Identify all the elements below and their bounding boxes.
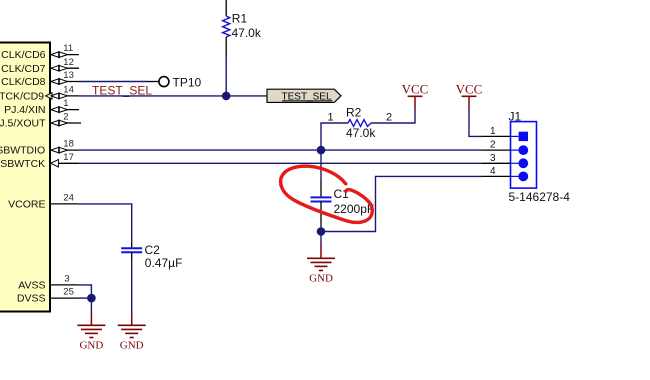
svg-text:47.0k: 47.0k xyxy=(232,26,262,40)
IC U1 body (partial, clipped at left edge) xyxy=(0,43,50,312)
wire VCC to J1 pin1 xyxy=(469,109,482,136)
wire R2 pin1 to node xyxy=(321,123,342,150)
wire pin14 to net label xyxy=(79,95,267,97)
svg-text:2200pF: 2200pF xyxy=(334,202,375,216)
junction node TEST_SEL / R1 xyxy=(222,92,231,101)
pin 13 CLK/CD8 xyxy=(1,70,79,88)
wire AVSS to DVSS node xyxy=(77,285,91,298)
svg-text:R2: R2 xyxy=(346,105,362,119)
wire C1 bottom to junction xyxy=(320,226,322,232)
svg-text:SBWTCK: SBWTCK xyxy=(0,158,45,170)
wire junction to J1 pin4 xyxy=(321,176,482,231)
wire pin13 to TP10 xyxy=(79,81,147,83)
svg-text:CLK/CD7: CLK/CD7 xyxy=(1,63,46,75)
wire node to GND xyxy=(90,298,92,313)
junction node C1 / GND / J1 pin4 xyxy=(317,227,326,236)
svg-text:11: 11 xyxy=(63,43,73,54)
svg-text:3: 3 xyxy=(64,274,69,285)
svg-text:2: 2 xyxy=(386,111,392,123)
svg-text:14: 14 xyxy=(63,85,74,96)
svg-text:R1: R1 xyxy=(232,11,248,25)
resistor R2 xyxy=(328,105,393,140)
pin 1 PJ.4/XIN xyxy=(4,98,79,116)
connector J1 xyxy=(482,109,570,203)
svg-text:17: 17 xyxy=(63,152,74,163)
svg-text:1: 1 xyxy=(63,98,68,109)
svg-text:25: 25 xyxy=(63,287,74,298)
wire R1 to junction xyxy=(225,57,227,96)
wire R2 pin2 to VCC xyxy=(377,109,415,123)
capacitor C2 xyxy=(121,241,182,270)
svg-text:PJ.4/XIN: PJ.4/XIN xyxy=(4,104,45,116)
svg-text:VCC: VCC xyxy=(402,82,429,97)
red annotation circle around C1 xyxy=(281,166,373,222)
J1 pin 1 (square) xyxy=(519,132,528,141)
svg-text:GND: GND xyxy=(120,339,144,351)
svg-text:GND: GND xyxy=(309,272,333,284)
svg-text:PJ.5/XOUT: PJ.5/XOUT xyxy=(0,118,46,130)
junction node AVSS/DVSS xyxy=(87,294,96,303)
capacitor C1 xyxy=(311,150,375,226)
J1 pin 2 xyxy=(518,145,528,155)
svg-text:AVSS: AVSS xyxy=(18,280,45,292)
ground GND (under C2) xyxy=(118,313,146,352)
svg-text:2: 2 xyxy=(63,112,68,123)
svg-text:13: 13 xyxy=(63,70,74,81)
ground GND (under C1) xyxy=(307,232,335,285)
pin 2 PJ.5/XOUT xyxy=(0,112,81,130)
wire SBWTDIO to J1 pin2 xyxy=(79,149,482,151)
svg-text:CLK/CD6: CLK/CD6 xyxy=(1,49,46,61)
svg-text:DVSS: DVSS xyxy=(17,293,46,305)
pin 24 VCORE xyxy=(8,193,77,211)
svg-text:VCC: VCC xyxy=(456,82,483,97)
svg-text:24: 24 xyxy=(63,193,74,204)
svg-text:18: 18 xyxy=(63,139,74,150)
resistor R1 xyxy=(223,0,262,57)
test point TP10 xyxy=(159,75,202,89)
net label TEST_SEL flag xyxy=(267,89,341,102)
svg-text:1: 1 xyxy=(490,126,496,137)
pin 3 AVSS xyxy=(18,274,77,292)
wire VCORE to C2 xyxy=(77,204,132,242)
svg-text:CLK/CD8: CLK/CD8 xyxy=(1,76,46,88)
svg-text:SBWTDIO: SBWTDIO xyxy=(0,145,45,157)
wire SBWTCK to J1 pin3 xyxy=(79,162,482,164)
svg-text:0.47µF: 0.47µF xyxy=(145,256,183,270)
power port VCC (left, for R2) xyxy=(402,82,429,109)
svg-text:GND: GND xyxy=(79,339,103,351)
pin 18 SBWTDIO xyxy=(0,139,79,157)
svg-text:TP10: TP10 xyxy=(173,75,202,89)
svg-text:1: 1 xyxy=(328,111,334,123)
J1 pin 4 xyxy=(518,172,528,182)
svg-text:5-146278-4: 5-146278-4 xyxy=(509,190,571,204)
wire DVSS to node xyxy=(77,297,91,299)
pin 14 TCK/CD9 xyxy=(0,85,79,103)
pin 11 CLK/CD6 xyxy=(1,43,79,61)
svg-text:TCK/CD9: TCK/CD9 xyxy=(0,91,44,103)
svg-text:4: 4 xyxy=(490,166,496,177)
junction node SBWTDIO / R2 / C1 xyxy=(317,146,326,155)
wire C2 to GND xyxy=(131,260,133,313)
ground GND (under AVSS/DVSS) xyxy=(77,313,105,352)
power port VCC (right, for J1 pin1) xyxy=(456,82,483,109)
pin 25 DVSS xyxy=(17,287,77,305)
svg-text:47.0k: 47.0k xyxy=(346,126,376,140)
pin 12 CLK/CD7 xyxy=(1,57,79,75)
svg-text:2: 2 xyxy=(490,140,496,151)
svg-text:VCORE: VCORE xyxy=(8,199,45,211)
svg-text:12: 12 xyxy=(63,57,74,68)
svg-text:3: 3 xyxy=(490,153,496,164)
pin 17 SBWTCK xyxy=(0,152,79,170)
svg-text:C2: C2 xyxy=(145,243,161,257)
J1 pin 3 xyxy=(518,158,528,168)
